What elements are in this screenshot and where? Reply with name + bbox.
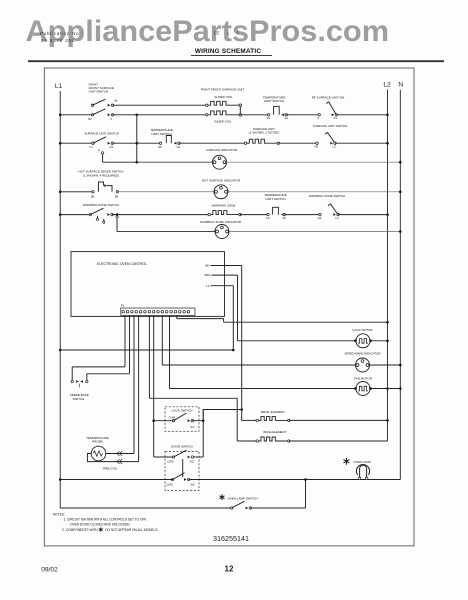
svg-text:FAN MOTOR: FAN MOTOR: [354, 377, 373, 381]
wire jog to L2: [224, 321, 388, 323]
wire warming indicator to N: [229, 231, 400, 233]
wire to surface unit coil: [179, 142, 246, 144]
svg-text:Publication No:: Publication No:: [40, 31, 81, 36]
svg-text:UNIT SWITCH: UNIT SWITCH: [89, 90, 109, 94]
electronic oven control box: [71, 252, 225, 317]
svg-text:P: P: [98, 149, 100, 153]
wire to surface unit switch right: [278, 142, 317, 144]
wire to limit switch row2: [112, 142, 160, 144]
wire pin to L2 jog: [176, 315, 178, 318]
svg-text:OVEN DOOR CLOSED AND UNLOCKED.: OVEN DOOR CLOSED AND UNLOCKED.: [70, 522, 131, 526]
svg-text:WARMING ZONE: WARMING ZONE: [212, 204, 236, 208]
svg-text:NOTES:: NOTES:: [53, 513, 65, 517]
connector probe upper: [117, 451, 122, 456]
title underline: [191, 54, 272, 56]
svg-text:1. CIRCUIT SHOWN WITH ALL CON: 1. CIRCUIT SHOWN WITH ALL CONTROLS SET T…: [64, 517, 148, 521]
wire to RF switch: [286, 114, 319, 116]
wire L1 vertical: [59, 91, 61, 508]
svg-text:N: N: [398, 81, 403, 88]
heater inner coil: [206, 114, 208, 116]
wire lock to door NO: [202, 410, 204, 457]
svg-text:SURFACE UNIT SWITCH: SURFACE UNIT SWITCH: [313, 124, 348, 128]
wire hot surface indicator to N: [228, 191, 400, 193]
svg-text:SURFACE INDICATOR: SURFACE INDICATOR: [206, 148, 238, 152]
svg-text:P1: P1: [121, 304, 125, 308]
wire BRL out: [212, 274, 238, 276]
wire indicator feed: [136, 161, 139, 164]
wire pin to speed bake indicator: [161, 315, 163, 365]
svg-text:DO NOT APPEAR ON ALL MODELS.: DO NOT APPEAR ON ALL MODELS.: [105, 528, 158, 532]
svg-text:2A: 2A: [285, 116, 289, 120]
svg-text:OVEN LAMP: OVEN LAMP: [353, 460, 371, 464]
heater surface unit coil: [244, 142, 246, 144]
switch speed bake switch: [72, 366, 125, 368]
wire L1 out: [211, 285, 234, 287]
wire L1 bus: [59, 349, 62, 352]
wire pin to probe a: [133, 315, 135, 453]
svg-text:FE: FE: [214, 30, 220, 35]
wire to inner coil: [113, 114, 207, 116]
svg-text:COM: COM: [167, 459, 174, 463]
svg-text:DOOR SWITCH: DOOR SWITCH: [171, 444, 193, 448]
lamp oven lamp: [343, 458, 349, 465]
wire lamp switch to riser: [250, 507, 305, 509]
svg-text:SPEED BAKE: SPEED BAKE: [70, 393, 89, 397]
svg-text:SURFACE UNIT SWITCH: SURFACE UNIT SWITCH: [84, 132, 119, 136]
wire probe lower: [87, 454, 138, 462]
notes asterisk: [99, 527, 103, 531]
wire indicator to N: [227, 161, 401, 163]
wire pin to probe b: [138, 315, 140, 461]
svg-text:BK: BK: [205, 264, 209, 268]
svg-text:4a: 4a: [114, 99, 118, 103]
svg-text:RIGHT FRONT SURFACE UNIT: RIGHT FRONT SURFACE UNIT: [201, 88, 244, 92]
wire L1 row2: [59, 142, 62, 145]
svg-text:(1 SHOWN, 4 REQUIRED): (1 SHOWN, 4 REQUIRED): [83, 173, 119, 177]
svg-text:H2: H2: [318, 216, 322, 220]
svg-text:P2: P2: [88, 117, 92, 121]
svg-text:ELECTRONIC OVEN CONTROL: ELECTRONIC OVEN CONTROL: [97, 262, 147, 266]
svg-text:BAKE ELEMENT: BAKE ELEMENT: [263, 430, 286, 434]
wire to warming element: [112, 214, 209, 216]
svg-text:HOT SURFACE INDICATOR: HOT SURFACE INDICATOR: [202, 178, 241, 182]
svg-text:COM: COM: [166, 483, 173, 487]
junction lamp switch riser: [304, 478, 307, 481]
contact 4a: [108, 104, 111, 107]
svg-text:H1: H1: [110, 145, 114, 149]
heater super coil: [206, 104, 208, 106]
wire to hot surface indicator: [117, 191, 214, 193]
wire lock switch NO out: [192, 410, 241, 421]
wire to warming zone switch right: [284, 214, 320, 216]
svg-text:P1: P1: [334, 116, 338, 120]
svg-text:L2: L2: [383, 81, 391, 88]
contact P2: [91, 104, 93, 106]
switch blades: [93, 99, 106, 105]
svg-text:PROBE: PROBE: [92, 440, 103, 444]
wire pin to speed bake switch b: [129, 315, 131, 373]
blade row2: [93, 137, 106, 143]
svg-text:OVEN LAMP SWITCH: OVEN LAMP SWITCH: [228, 497, 258, 501]
wire to L2 row4: [338, 214, 388, 216]
svg-text:COM: COM: [169, 415, 176, 419]
wire to limit switch row4: [240, 214, 268, 216]
svg-text:1B: 1B: [91, 195, 95, 199]
svg-text:L2: L2: [333, 145, 337, 149]
contact 4: [108, 113, 111, 116]
wire to L2: [336, 114, 387, 116]
contact H1: [108, 142, 111, 145]
svg-text:(1 SHOWN, 2 NOTED): (1 SHOWN, 2 NOTED): [249, 131, 280, 135]
switch lock switch: [165, 407, 199, 432]
connector probe lower: [117, 459, 122, 464]
wire speed bake indicator to N: [370, 364, 401, 366]
wire N vertical: [399, 90, 401, 480]
schematic border: [44, 68, 414, 546]
junction row2 tap: [136, 142, 139, 145]
svg-text:BRL: BRL: [205, 273, 211, 277]
svg-text:PRB CON: PRB CON: [103, 467, 117, 471]
svg-text:WARMING ZONE SWITCH: WARMING ZONE SWITCH: [309, 194, 346, 198]
svg-text:RF SURFACE UNIT SW: RF SURFACE UNIT SW: [312, 95, 345, 99]
svg-text:BROIL ELEMENT: BROIL ELEMENT: [261, 410, 285, 414]
svg-text:WARMING ZONE INDICATOR: WARMING ZONE INDICATOR: [200, 220, 242, 224]
wire pin to fan motor: [169, 315, 171, 388]
svg-text:LIMIT SWITCH: LIMIT SWITCH: [265, 197, 285, 201]
svg-text:SPEED BAKE INDICATOR: SPEED BAKE INDICATOR: [344, 351, 381, 355]
wire pin to speed bake switch a: [124, 315, 126, 366]
svg-text:12: 12: [225, 565, 234, 574]
junction to row2: [136, 114, 139, 117]
door switch upper contacts: [154, 456, 174, 458]
svg-text:LIMIT SWITCH: LIMIT SWITCH: [264, 99, 284, 103]
wire pin to bake aux: [148, 315, 150, 398]
svg-text:2B: 2B: [115, 195, 119, 199]
switch oven lamp switch: [219, 494, 224, 500]
door switch lower contacts: [171, 478, 173, 480]
svg-text:WIRING SCHEMATIC: WIRING SCHEMATIC: [195, 48, 261, 55]
svg-text:09/02: 09/02: [41, 567, 58, 574]
svg-text:LOCK MOTOR: LOCK MOTOR: [352, 328, 373, 332]
svg-text:2A: 2A: [283, 216, 287, 220]
wire L2 vertical: [387, 90, 389, 441]
svg-text:316255141: 316255141: [213, 534, 249, 543]
svg-text:1A: 1A: [267, 116, 271, 120]
svg-text:2. COMPONENTS WITH: 2. COMPONENTS WITH: [62, 528, 98, 532]
wire to super coil: [113, 104, 207, 106]
wire P drop: [102, 154, 104, 162]
junction warming indicator drop: [116, 213, 119, 216]
wire broil to L2: [289, 419, 388, 421]
wire coil join: [239, 105, 241, 115]
svg-text:SUPER COIL: SUPER COIL: [214, 95, 233, 99]
svg-text:1A: 1A: [266, 216, 270, 220]
wire L1 to P2: [59, 114, 62, 117]
svg-text:1A: 1A: [177, 145, 181, 149]
header rule: [28, 60, 444, 62]
svg-text:2A: 2A: [158, 145, 162, 149]
svg-text:WARMING ZONE SWITCH: WARMING ZONE SWITCH: [83, 203, 120, 207]
svg-text:C: C: [237, 30, 240, 35]
svg-text:NC: NC: [191, 483, 195, 487]
svg-text:SWITCH: SWITCH: [73, 397, 85, 401]
wire probe upper: [106, 453, 134, 455]
wire BK out: [211, 265, 242, 267]
svg-text:LOCK SWITCH: LOCK SWITCH: [172, 408, 193, 412]
svg-text:L1: L1: [90, 145, 94, 149]
wire pin to door lock: [153, 315, 155, 457]
wire bottom bus: [59, 478, 62, 481]
wire bake to L2: [289, 440, 388, 442]
svg-text:L2: L2: [336, 216, 340, 220]
svg-text:L1: L1: [55, 83, 63, 90]
svg-text:L1: L1: [206, 284, 210, 288]
svg-text:59 5378 306: 59 5378 306: [41, 38, 75, 43]
wire to limit switch: [240, 114, 268, 116]
wire to L2 row2: [335, 142, 388, 144]
svg-text:H2: H2: [315, 145, 319, 149]
svg-text:H1: H1: [116, 215, 120, 219]
door switch link: [182, 459, 184, 477]
contact P: [101, 152, 103, 154]
contact L1: [92, 142, 94, 144]
svg-text:INNER COIL: INNER COIL: [214, 119, 232, 123]
